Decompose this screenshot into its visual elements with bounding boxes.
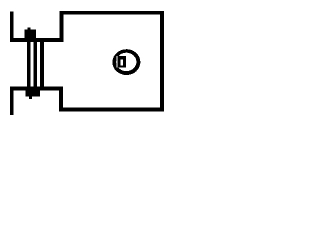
flange bottom horizontal bar bbox=[10, 87, 63, 91]
housing box right edge bbox=[160, 11, 164, 111]
housing box bottom edge bbox=[59, 108, 164, 112]
housing box top edge bbox=[59, 11, 164, 15]
bearing inner slot bbox=[121, 59, 124, 65]
bearing circle U1 outer ring bbox=[112, 49, 140, 75]
housing box left edge upper segment bbox=[59, 11, 63, 42]
flange left vertical lower segment bbox=[10, 87, 13, 115]
bearing inner block bbox=[117, 56, 125, 67]
bearing ring inner clearance bbox=[116, 56, 117, 68]
gland bolt top head nub bbox=[28, 27, 31, 29]
bearing circle U1 inner face bbox=[116, 53, 136, 71]
packing seal line 2 bbox=[34, 42, 38, 87]
gland bolt bottom head nub bbox=[29, 96, 32, 98]
gland bolt bottom body bbox=[26, 90, 41, 96]
packing seal line 1 bbox=[27, 42, 31, 87]
housing box left edge lower segment bbox=[59, 87, 63, 112]
flange left vertical upper segment bbox=[10, 11, 13, 41]
gland bolt top body bbox=[25, 30, 36, 39]
packing seal line 3 bbox=[40, 42, 44, 87]
flange top horizontal bar bbox=[10, 38, 63, 42]
